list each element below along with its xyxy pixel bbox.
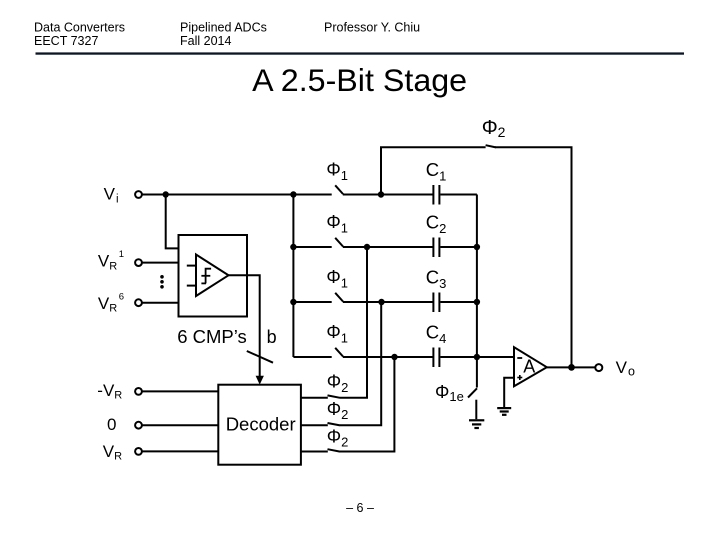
svg-text:-VR: -VR (97, 381, 122, 402)
svg-text:EECT 7327: EECT 7327 (34, 34, 98, 48)
svg-text:Pipelined ADCs: Pipelined ADCs (180, 21, 267, 35)
svg-text:Vi: Vi (104, 185, 119, 206)
svg-text:A 2.5-Bit Stage: A 2.5-Bit Stage (252, 62, 467, 98)
svg-text:Φ1: Φ1 (326, 322, 348, 345)
svg-text:– 6 –: – 6 – (346, 501, 374, 515)
svg-text:Fall 2014: Fall 2014 (180, 34, 231, 48)
svg-text:C1: C1 (426, 159, 447, 184)
svg-text:VR: VR (103, 442, 122, 463)
svg-text:VR6: VR6 (98, 292, 124, 315)
svg-text:Φ1: Φ1 (326, 267, 348, 290)
svg-text:C3: C3 (426, 266, 447, 291)
svg-text:Data Converters: Data Converters (34, 21, 125, 35)
svg-text:Φ2: Φ2 (327, 372, 349, 395)
svg-text:Φ1: Φ1 (326, 160, 348, 183)
svg-text:Φ2: Φ2 (327, 426, 349, 449)
svg-text:Φ2: Φ2 (327, 399, 349, 422)
svg-text:Professor Y. Chiu: Professor Y. Chiu (324, 21, 420, 35)
svg-text:b: b (267, 327, 277, 347)
svg-text:Vo: Vo (616, 358, 635, 379)
svg-text:Decoder: Decoder (226, 414, 296, 435)
svg-text:A: A (523, 357, 535, 377)
svg-text:Φ1: Φ1 (326, 212, 348, 235)
svg-text:Φ2: Φ2 (482, 117, 506, 140)
svg-text:6 CMP’s: 6 CMP’s (177, 326, 247, 347)
svg-text:Φ1e: Φ1e (435, 382, 464, 404)
svg-text:VR1: VR1 (98, 249, 124, 272)
svg-text:C2: C2 (426, 211, 447, 236)
svg-text:0: 0 (107, 415, 116, 434)
svg-text:C4: C4 (426, 321, 447, 346)
